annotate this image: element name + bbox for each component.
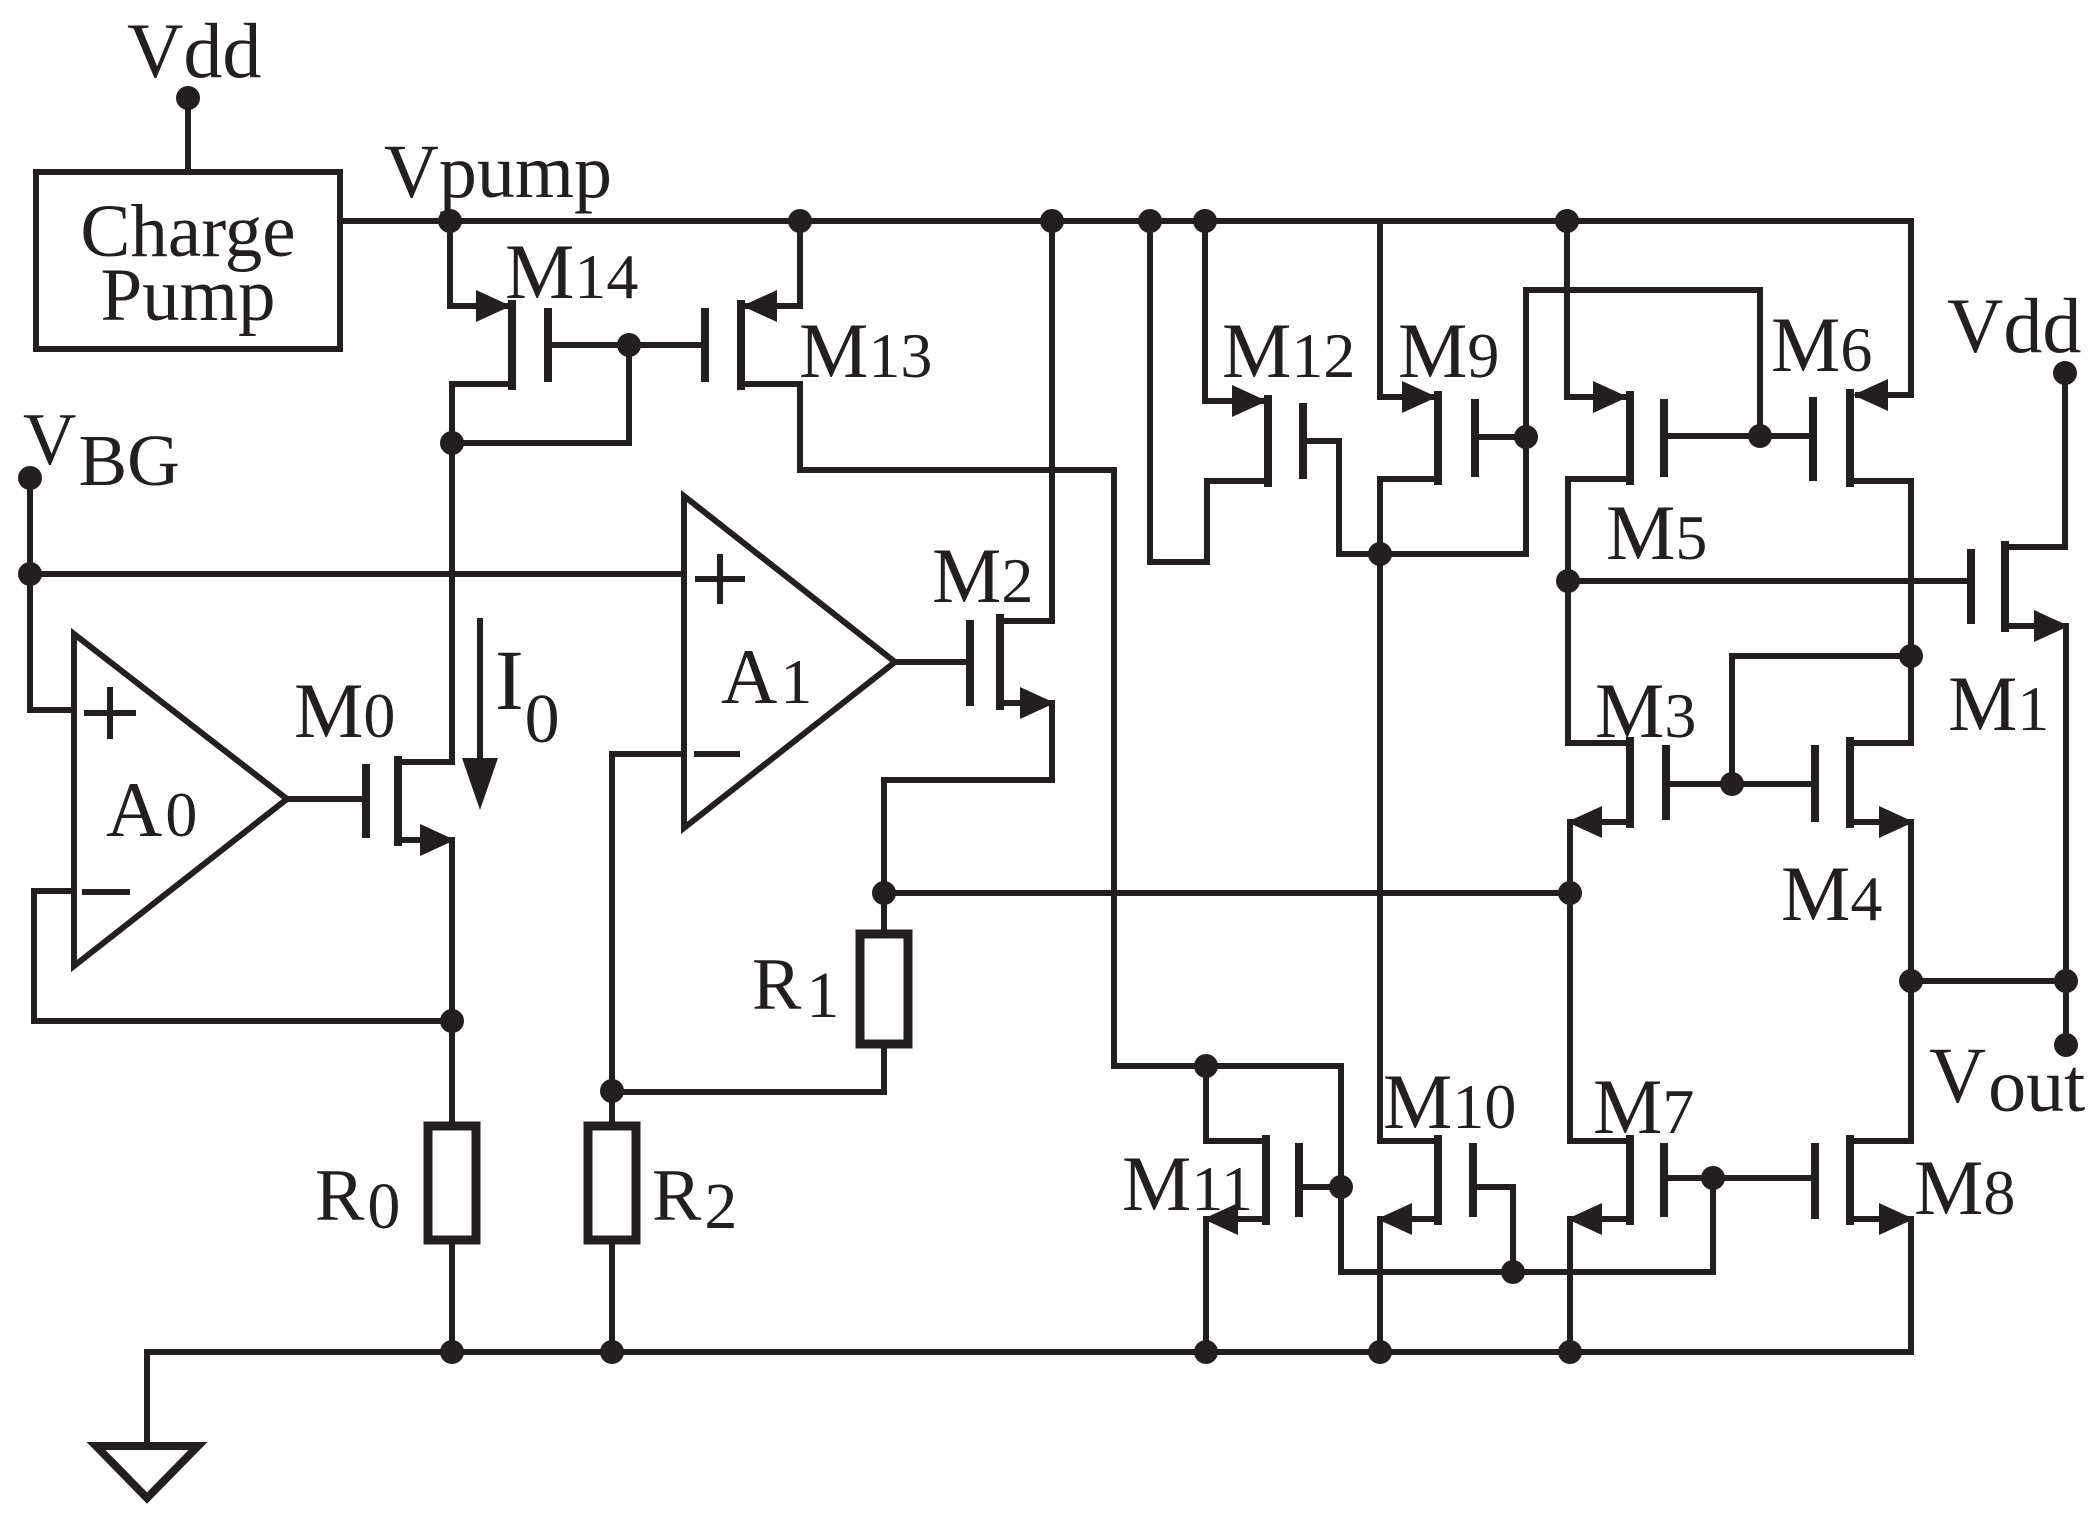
node Vpump rail (788, 209, 812, 233)
node M3 source (1558, 881, 1582, 905)
transistor M3 channel (1626, 741, 1634, 824)
arrow M11 source (1203, 1203, 1238, 1235)
transistor M7 gate bar (1660, 1147, 1668, 1213)
transistor M14 gate bar (544, 312, 552, 378)
wire M9 gate (1475, 434, 1526, 440)
arrow M0 source (420, 824, 455, 856)
node gnd rail M7 (1558, 1340, 1582, 1364)
transistor M14 channel (508, 304, 516, 386)
node gnd rail M10 (1368, 1340, 1392, 1364)
node M10 gate tap (1501, 1260, 1525, 1284)
node gnd rail R2 (600, 1340, 624, 1364)
Vout terminal (2054, 1033, 2078, 1057)
svg-text:M3: M3 (1595, 667, 1696, 754)
wire M5 drain (1568, 479, 1630, 743)
transistor M12 channel (1264, 399, 1272, 483)
transistor M5 gate bar (1660, 403, 1668, 473)
svg-text:M13: M13 (799, 307, 932, 394)
transistor M13 gate bar (701, 312, 709, 378)
wire ground rail (147, 1349, 1911, 1355)
resistor R2 (588, 1126, 636, 1240)
node gate link (617, 333, 641, 357)
wire M3 source down (1567, 822, 1573, 893)
wire gate to drain tie (452, 345, 629, 443)
transistor M12 gate bar (1299, 407, 1307, 475)
wire ground stub (144, 1352, 150, 1444)
wire M12 gate (1303, 441, 1378, 554)
wire M3M7 link (1567, 893, 1573, 1141)
svg-text:M7: M7 (1593, 1063, 1694, 1150)
transistor M10 gate bar (1469, 1147, 1477, 1213)
wire M4 source down (1908, 822, 1914, 1141)
wire M5 gate link (1664, 433, 1813, 439)
svg-text:M10: M10 (1383, 1058, 1516, 1145)
transistor M0 channel (394, 760, 402, 842)
wire A1 output (895, 659, 968, 665)
wire M11 drain stem (1206, 1066, 1264, 1141)
wire R0 bottom (449, 1240, 455, 1352)
resistor R0 (428, 1126, 476, 1240)
svg-text:Vout: Vout (1929, 1033, 2085, 1128)
wire Vpump rail (338, 218, 1911, 224)
arrow M12 source (1232, 385, 1267, 417)
node Vpump rail (1193, 209, 1217, 233)
wire A0 -input (34, 891, 451, 1021)
wire M13 source stem (747, 221, 800, 306)
wire M1 source down (2063, 626, 2069, 1045)
wire M9 drain (1380, 479, 1438, 1141)
wire M11 source (1208, 1216, 1266, 1222)
arrow M2 source (1020, 687, 1055, 719)
wire R2 top (609, 1091, 615, 1126)
wire M6 drain to M3M4 gates (1732, 656, 1911, 784)
wire M12 source stem (1205, 221, 1262, 401)
svg-text:Vpump: Vpump (384, 130, 612, 214)
node Vpump rail (438, 209, 462, 233)
node A0 feedback (440, 1009, 464, 1033)
arrow M5 source (1593, 381, 1628, 413)
wire Vdd to M1 (2007, 373, 2065, 547)
arrow M8 source (1879, 1203, 1914, 1235)
arrow M9 source (1402, 381, 1437, 413)
svg-text:M11: M11 (1122, 1140, 1253, 1227)
wire M5 source stem (1567, 221, 1623, 397)
wire M7 source (1572, 1216, 1630, 1222)
wire M3 source (1572, 819, 1630, 825)
node R1 top (872, 881, 896, 905)
transistor M3 gate bar (1662, 749, 1670, 816)
wire M6 drain (1850, 481, 1911, 743)
wire VBG stub (27, 478, 33, 574)
wire M9 diode tie (1380, 437, 1526, 554)
wire M8 drain (1850, 1138, 1911, 1144)
wire M10 drain (1380, 1138, 1434, 1144)
transistor M2 gate bar (966, 624, 974, 702)
wire A0 +input (30, 574, 74, 710)
wire M0 source (398, 837, 452, 843)
arrow I0 (462, 758, 498, 810)
wire M10 source down (1377, 1219, 1383, 1352)
wire VBG line (30, 571, 684, 577)
node M7 gate tap (1701, 1166, 1725, 1190)
svg-text:M6: M6 (1771, 301, 1872, 388)
wire M7 source down (1567, 1219, 1573, 1352)
wire bias to M5M6 gates (1526, 290, 1760, 437)
wire M7 drain (1570, 1138, 1628, 1144)
arrow M1 source (2034, 610, 2069, 642)
wire M1 source (2005, 623, 2062, 629)
arrow M10 source (1377, 1203, 1412, 1235)
transistor M11 gate bar (1295, 1147, 1303, 1213)
wire R1 bottom (612, 1044, 884, 1092)
VBG terminal (18, 466, 42, 490)
wire M0 drain (398, 759, 452, 765)
svg-text:M8: M8 (1914, 1144, 2015, 1231)
wire M3 drain (1568, 740, 1628, 746)
wire M13 drain run (741, 384, 1713, 1272)
transistor M9 gate bar (1471, 403, 1479, 473)
wire M0 source down (449, 840, 455, 1126)
svg-text:M1: M1 (1948, 660, 2049, 747)
node R2 top (600, 1079, 624, 1103)
op-amp A0 (74, 634, 287, 966)
node Vpump rail (1138, 209, 1162, 233)
transistor M13 channel (737, 304, 745, 386)
wire M8 source down (1908, 1219, 1914, 1352)
svg-text:M4: M4 (1781, 850, 1882, 937)
node M3M4 gate line (1720, 772, 1744, 796)
wire A1 -input (612, 754, 684, 1091)
transistor M2 channel (996, 618, 1004, 706)
arrow M3 source (1567, 806, 1602, 838)
svg-text:Pump: Pump (100, 254, 275, 337)
wire I0 arrow (477, 621, 483, 762)
wire M3M4 gate link (1666, 781, 1813, 787)
wire M2 source (884, 703, 1052, 893)
wire M4 source (1850, 819, 1909, 825)
node VBG line (18, 562, 42, 586)
wire R2 bottom (609, 1240, 615, 1352)
op-amp A1 (684, 496, 895, 828)
vdd-left terminal (176, 86, 200, 110)
transistor M4 channel (1846, 741, 1854, 824)
wire M14-M13 gate link (548, 342, 705, 348)
arrow M4 source (1879, 806, 1914, 838)
charge pump block (36, 172, 340, 349)
transistor M9 channel (1434, 395, 1442, 481)
node Vpump rail (1555, 209, 1579, 233)
svg-text:M9: M9 (1398, 307, 1499, 394)
wire M10 source (1382, 1216, 1438, 1222)
wire M14 source stem (450, 221, 506, 306)
arrow M14 source (476, 290, 511, 322)
arrow M13 source (742, 290, 777, 322)
svg-text:Vdd: Vdd (127, 7, 261, 94)
node M9 gate (1514, 425, 1538, 449)
svg-text:Vdd: Vdd (1947, 282, 2081, 369)
transistor M1 channel (2001, 545, 2009, 628)
wire M5 drain to M1 gate (1568, 578, 1967, 584)
transistor M6 gate bar (1809, 401, 1817, 477)
wire M14 drain down to M0 (449, 443, 455, 762)
wire M9 source stem (1380, 221, 1432, 397)
arrow M7 source (1567, 1203, 1602, 1235)
transistor M10 channel (1434, 1139, 1442, 1221)
svg-text:M0: M0 (294, 667, 395, 754)
node M5 drain (1556, 569, 1580, 593)
svg-text:A0: A0 (106, 766, 197, 853)
svg-text:M2: M2 (932, 532, 1033, 619)
resistor R1 (860, 934, 908, 1044)
node gnd rail M11 (1194, 1340, 1218, 1364)
wire M2 drain stem (1000, 221, 1052, 621)
wire M14 drain (452, 384, 512, 443)
wire M11 source down (1203, 1219, 1209, 1352)
node Vpump rail (1040, 209, 1064, 233)
transistor M5 channel (1626, 395, 1634, 481)
node M11 gate tap (1329, 1175, 1353, 1199)
wire M11 gate (1299, 1184, 1341, 1190)
node gnd rail R0 (440, 1340, 464, 1364)
wire M7M8 gate link (1664, 1175, 1813, 1181)
wire Vdd to charge pump (185, 98, 191, 174)
transistor M0 gate bar (362, 768, 370, 834)
svg-text:M5: M5 (1606, 489, 1707, 576)
node M14 drain (440, 431, 464, 455)
wire M10 gate (1473, 1187, 1513, 1272)
svg-text:A1: A1 (721, 633, 812, 720)
transistor M11 channel (1262, 1139, 1270, 1221)
node M5M6 gate line (1748, 424, 1772, 448)
node M6 drain (1899, 644, 1923, 668)
wire R1 top (881, 893, 887, 934)
transistor M7 channel (1626, 1139, 1634, 1221)
node M1 source (2054, 969, 2078, 993)
wire M4-M1 link (1911, 978, 2066, 984)
wire mid node line (884, 890, 1570, 896)
wire M4 drain (1850, 740, 1911, 746)
transistor M8 gate bar (1811, 1147, 1819, 1215)
vdd-right terminal (2053, 361, 2077, 385)
svg-text:M14: M14 (505, 228, 638, 315)
arrow M6 source (1853, 379, 1888, 411)
transistor M6 channel (1846, 393, 1854, 483)
wire M6 source stem (1858, 221, 1911, 395)
wire M8 source (1850, 1216, 1909, 1222)
node M11 drain tap (1194, 1054, 1218, 1078)
node M4 source (1899, 969, 1923, 993)
wire A0 output (287, 796, 364, 802)
wire M12 drain U (1150, 221, 1268, 562)
node M9 drain (1368, 542, 1392, 566)
ground (96, 1446, 198, 1498)
transistor M1 gate bar (1967, 553, 1975, 620)
transistor M4 gate bar (1811, 749, 1819, 818)
transistor M8 channel (1846, 1139, 1854, 1221)
svg-text:M12: M12 (1222, 307, 1355, 394)
